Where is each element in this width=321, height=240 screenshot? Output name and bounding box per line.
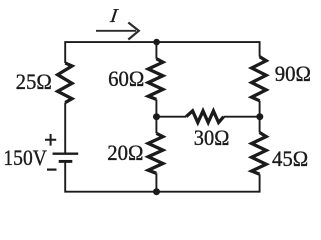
svg-text:90Ω: 90Ω <box>275 61 311 86</box>
svg-text:20Ω: 20Ω <box>107 140 143 165</box>
svg-text:I: I <box>107 5 120 26</box>
svg-text:30Ω: 30Ω <box>194 125 230 150</box>
svg-text:150V: 150V <box>3 145 47 170</box>
svg-text:25Ω: 25Ω <box>16 69 52 94</box>
svg-text:45Ω: 45Ω <box>272 146 308 171</box>
svg-text:60Ω: 60Ω <box>108 66 144 91</box>
